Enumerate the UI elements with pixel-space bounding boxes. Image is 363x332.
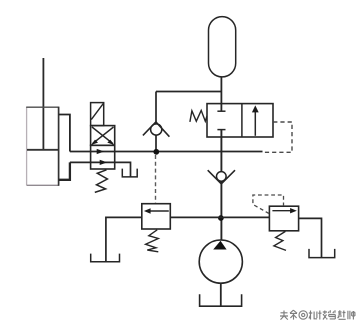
junction node J1: [153, 149, 159, 155]
pilot dashed loop RV: [253, 195, 284, 214]
unloading valve U1: [207, 104, 273, 137]
wire: pump suction: [220, 283, 222, 306]
check valve CV2: [208, 170, 235, 184]
pilot dashed line D2: [263, 122, 292, 152]
spring U1 (left side): [190, 110, 207, 122]
check valve CV1: [143, 122, 170, 137]
watermark: [280, 310, 355, 320]
pump P1: [199, 240, 242, 283]
wire: cylinder bottom port: [59, 162, 70, 179]
wire: cylinder top port to main line: [59, 115, 70, 152]
wire: RV to tank T3: [299, 218, 322, 257]
wire: check valve branch vertical: [155, 92, 157, 152]
tank T3: [309, 249, 335, 258]
wire: accumulator branch horizontal: [156, 91, 221, 93]
cylinder: [26, 107, 58, 186]
tank T1 (valve drain): [122, 169, 137, 177]
tank T4 (pump): [200, 294, 242, 306]
right relief valve RV: [269, 206, 298, 231]
valve V1 closed position (X box): [91, 126, 115, 146]
solenoid: [91, 103, 104, 126]
wire: lower line to valve and drain: [70, 162, 131, 177]
wire: accumulator down to unloading valve: [220, 77, 222, 111]
wire: unloading valve bottom / pump riser: [220, 130, 222, 240]
tank T2: [91, 254, 120, 262]
spring RV: [274, 231, 286, 250]
wire: bottom distribution line: [170, 216, 269, 218]
wire: main pressure line: [70, 151, 263, 153]
left relief valve LV: [142, 204, 171, 229]
spring LV: [146, 230, 159, 252]
wire: LV to tank T2: [106, 217, 142, 261]
spring V1: [95, 170, 108, 193]
port bar top: [217, 110, 225, 112]
piston rod: [42, 58, 44, 150]
pilot dashed line D1: [155, 155, 157, 203]
junction node J2: [218, 215, 224, 221]
accumulator: [209, 17, 236, 77]
valve V1 flow position box: [91, 145, 115, 169]
